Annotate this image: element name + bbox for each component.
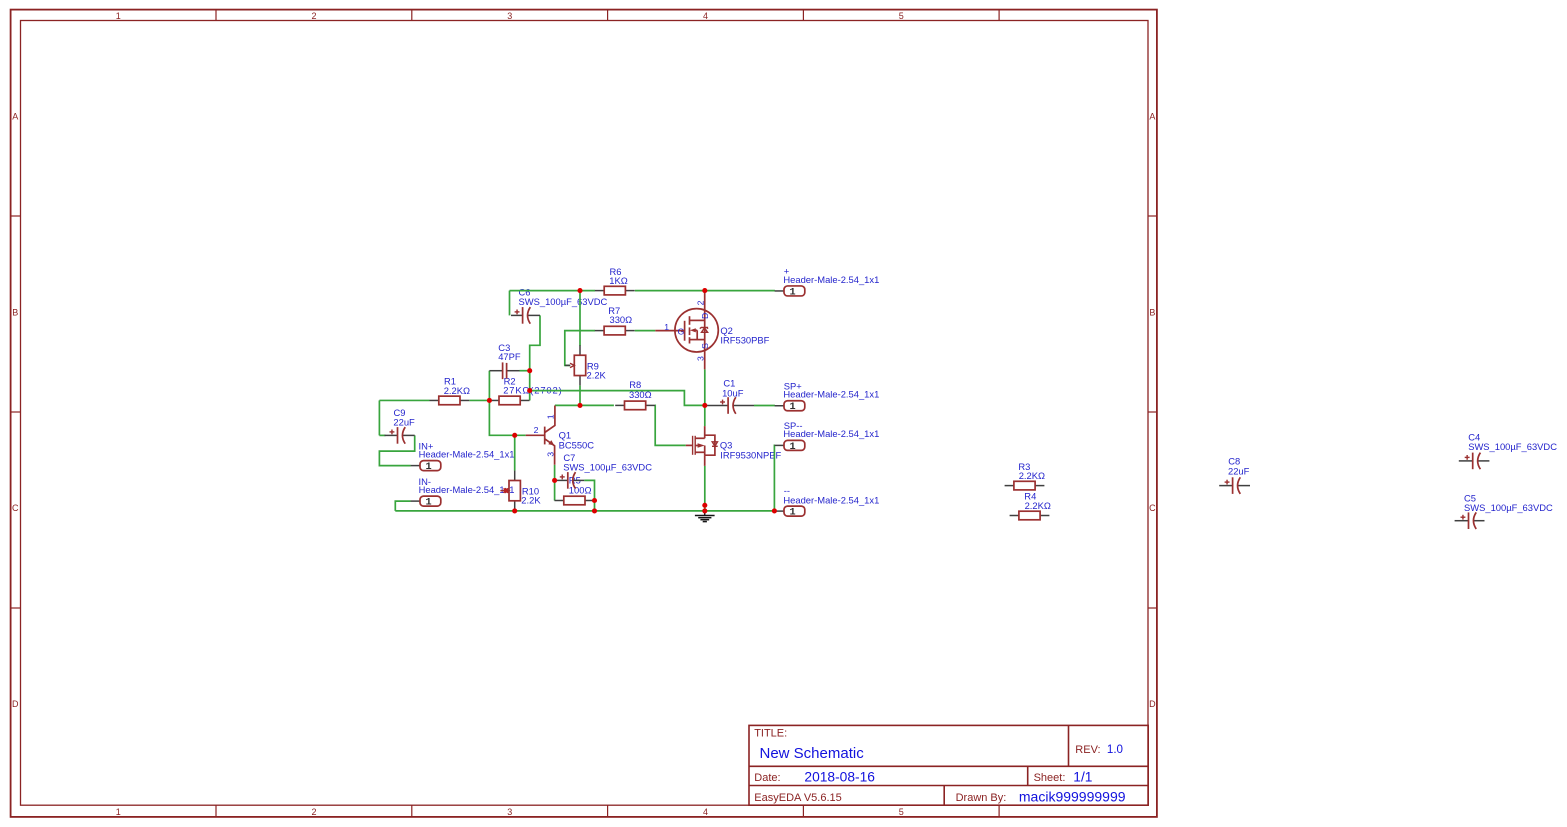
svg-text:IRF9530NPBF: IRF9530NPBF — [720, 450, 781, 461]
capacitor C8 — [1219, 477, 1250, 494]
label C8 — [1228, 456, 1250, 477]
junction top rail / R9 top — [577, 288, 582, 293]
header pin SP-- — [775, 440, 805, 452]
svg-text:C: C — [1149, 503, 1156, 513]
wire IN- to bottom rail — [395, 501, 410, 511]
resistor R5 — [555, 496, 595, 505]
frame row ticks right — [1148, 216, 1157, 608]
svg-text:22uF: 22uF — [393, 416, 415, 427]
svg-text:IRF530PBF: IRF530PBF — [720, 335, 769, 346]
svg-text:D: D — [700, 313, 710, 319]
svg-text:1/1: 1/1 — [1073, 769, 1092, 784]
wire top rail to R9 top — [579, 291, 581, 346]
junction C1 / Q2 source / Q3 — [702, 403, 707, 408]
wire junction down to R2 right — [529, 371, 531, 401]
svg-text:5: 5 — [899, 11, 904, 21]
title block border — [749, 725, 1148, 805]
trimmer resistor R10 — [500, 471, 520, 511]
wire R1 left down to C9 — [378, 400, 380, 435]
wire C1 right to SP+ header — [754, 405, 775, 407]
svg-text:3: 3 — [507, 807, 512, 817]
label R10 — [521, 486, 541, 506]
resistor R2 — [490, 396, 530, 405]
svg-text:A: A — [1149, 111, 1155, 121]
net label -- header — [783, 485, 879, 505]
svg-text:2: 2 — [696, 300, 706, 305]
frame row letters right — [1149, 111, 1156, 709]
label R5 — [569, 475, 592, 496]
svg-text:B: B — [12, 307, 18, 317]
svg-text:TITLE:: TITLE: — [754, 728, 787, 740]
wire R7 right to Q2 gate — [635, 330, 656, 332]
resistor R3 — [1005, 481, 1045, 490]
label C3 — [498, 342, 521, 362]
wire base node down to R10 top — [514, 435, 516, 470]
junction above ground — [702, 503, 707, 508]
resistor R8 — [615, 401, 655, 410]
junction R1/R2 — [487, 398, 492, 403]
wire C1 node down to Q3 top — [704, 405, 706, 426]
svg-text:1.0: 1.0 — [1107, 743, 1123, 756]
svg-text:10uF: 10uF — [722, 387, 744, 398]
resistor R4 — [1010, 511, 1050, 520]
svg-text:100Ω: 100Ω — [569, 485, 592, 496]
net label IN- header — [419, 476, 515, 495]
svg-text:Header-Male-2.54_1x1: Header-Male-2.54_1x1 — [783, 494, 879, 505]
frame column ticks top — [216, 10, 999, 21]
svg-text:C: C — [12, 503, 19, 513]
wire R1 left — [379, 399, 429, 401]
wire R9 bottom to collector row — [579, 386, 581, 406]
sheet frame inner border — [21, 21, 1149, 806]
wire Q3 bottom to ground rail — [704, 466, 706, 511]
label C4 — [1468, 431, 1557, 452]
transistor Q3 IRF9530NPBF — [686, 426, 718, 466]
frame column numbers top — [116, 11, 904, 21]
trimmer resistor R9 — [565, 345, 586, 385]
svg-text:2: 2 — [311, 11, 316, 21]
junction rail / SP-- — [772, 508, 777, 513]
header pin -- (bottom right) — [775, 506, 805, 518]
transistor Q1 BC550C — [526, 406, 555, 465]
wire bottom ground rail — [395, 510, 774, 512]
ground symbol — [695, 511, 715, 522]
svg-text:1: 1 — [545, 414, 555, 419]
capacitor C6 — [511, 307, 540, 324]
label C5 — [1464, 493, 1553, 514]
svg-text:Drawn By:: Drawn By: — [956, 792, 1007, 804]
svg-text:2018-08-16: 2018-08-16 — [804, 769, 875, 784]
net label + header — [783, 266, 879, 285]
svg-text:1: 1 — [664, 322, 669, 332]
wire C9 left stub — [379, 434, 385, 436]
capacitor C7 — [555, 472, 585, 489]
svg-text:3: 3 — [507, 11, 512, 21]
label C7 — [563, 452, 652, 473]
svg-text:Header-Male-2.54_1x1: Header-Male-2.54_1x1 — [783, 428, 879, 439]
svg-text:22uF: 22uF — [1228, 466, 1250, 477]
header pin + (top right) — [775, 286, 805, 298]
frame row letters left — [12, 111, 19, 709]
junction C3 right — [527, 368, 532, 373]
svg-text:BC550C: BC550C — [559, 439, 595, 450]
svg-text:REV:: REV: — [1075, 744, 1100, 756]
wire C3 left down to R1/R2 junction — [488, 371, 490, 401]
svg-text:1: 1 — [116, 807, 121, 817]
svg-text:SWS_100µF_63VDC: SWS_100µF_63VDC — [1464, 502, 1553, 513]
label Q2 — [720, 325, 769, 346]
label Q1 — [559, 430, 595, 451]
svg-text:2.2KΩ: 2.2KΩ — [444, 385, 470, 396]
label Q3 — [720, 440, 782, 461]
junction rail / R10 bottom — [512, 508, 517, 513]
junction Q1 emitter / C7 — [552, 478, 557, 483]
junction rail / C7 R5 — [592, 508, 597, 513]
wire R7 left to R9 wiper — [565, 331, 595, 366]
svg-text:Header-Male-2.54_1x1: Header-Male-2.54_1x1 — [419, 448, 515, 459]
svg-text:SWS_100µF_63VDC: SWS_100µF_63VDC — [519, 296, 608, 307]
svg-text:EasyEDA V5.6.15: EasyEDA V5.6.15 — [754, 792, 841, 804]
wire R1/R2 junction down to Q1 base — [489, 400, 525, 435]
capacitor C3 — [489, 362, 519, 379]
junction top rail / Q2 drain — [702, 288, 707, 293]
svg-text:1KΩ: 1KΩ — [609, 275, 627, 286]
wire C9 right zigzag to IN+ — [379, 435, 414, 465]
label R9 — [587, 360, 607, 380]
net label IN+ header — [419, 440, 515, 459]
svg-text:Header-Male-2.54_1x1: Header-Male-2.54_1x1 — [419, 484, 515, 495]
junction rail / ground — [702, 508, 707, 513]
junction Q1 base / R10 — [512, 433, 517, 438]
label R3 — [1018, 461, 1045, 481]
label R7 — [608, 305, 632, 325]
header pin SP+ — [775, 401, 805, 413]
junction C7/R5 right — [592, 498, 597, 503]
svg-text:B: B — [1149, 307, 1155, 317]
frame row ticks left — [11, 216, 21, 608]
net label SP-- header — [783, 420, 879, 439]
svg-text:4: 4 — [703, 807, 708, 817]
svg-text:macik999999999: macik999999999 — [1019, 788, 1126, 804]
label C1 — [722, 378, 744, 399]
label C9 — [393, 407, 415, 427]
junction R9 bottom / collector — [577, 403, 582, 408]
svg-text:Date:: Date: — [754, 772, 780, 784]
svg-text:1: 1 — [116, 11, 121, 21]
label R8 — [629, 379, 652, 400]
svg-text:A: A — [12, 111, 18, 121]
capacitor C9 — [385, 427, 415, 444]
header pin IN+ — [411, 461, 441, 473]
wire R8 right down to Q3 gate — [655, 405, 686, 445]
wire middle feedback run to C1 node — [530, 391, 705, 406]
svg-text:2: 2 — [311, 807, 316, 817]
label R1 — [444, 376, 470, 396]
wire C7 right down to R5 right and ground rail — [584, 480, 594, 511]
junction feedback tap — [527, 388, 532, 393]
svg-text:4: 4 — [703, 11, 708, 21]
label C6 — [519, 287, 608, 308]
svg-text:2.2KΩ: 2.2KΩ — [1025, 500, 1051, 511]
wire top rail left of R6 — [510, 290, 596, 292]
capacitor C4 — [1459, 453, 1490, 470]
resistor R6 — [595, 286, 635, 295]
wire Q2 source down to C1 node — [704, 369, 706, 405]
svg-text:2.2K: 2.2K — [521, 494, 541, 505]
svg-text:2.2KΩ: 2.2KΩ — [1019, 470, 1045, 481]
wire C3 right to junction — [520, 370, 530, 372]
svg-text:D: D — [12, 699, 19, 709]
svg-text:47PF: 47PF — [498, 351, 521, 362]
svg-text:Sheet:: Sheet: — [1034, 772, 1066, 784]
svg-text:Header-Male-2.54_1x1: Header-Male-2.54_1x1 — [783, 389, 879, 400]
svg-text:Header-Male-2.54_1x1: Header-Male-2.54_1x1 — [783, 274, 879, 285]
svg-text:D: D — [1149, 699, 1156, 709]
frame column ticks bottom — [216, 805, 999, 817]
svg-text:S: S — [700, 343, 710, 349]
svg-text:SWS_100µF_63VDC: SWS_100µF_63VDC — [1468, 441, 1557, 452]
wire Q1 collector row — [555, 404, 614, 406]
svg-text:New Schematic: New Schematic — [760, 745, 865, 762]
net label SP+ header — [783, 381, 879, 400]
frame column numbers bottom — [116, 807, 904, 817]
label R2 — [503, 375, 562, 395]
sheet frame outer border — [11, 10, 1157, 817]
svg-text:2.2K: 2.2K — [587, 369, 607, 380]
capacitor C1 — [707, 397, 754, 414]
wire C7 left down to R5 left — [554, 480, 556, 500]
wire SP-- header down to ground rail — [773, 445, 776, 511]
svg-text:G: G — [678, 326, 685, 336]
label R4 — [1024, 491, 1051, 512]
wire top rail down to C6 — [509, 291, 511, 316]
label R6 — [609, 266, 627, 286]
svg-text:3: 3 — [546, 452, 556, 457]
svg-text:2: 2 — [534, 425, 539, 435]
wire Q1 emitter down to C7 — [554, 465, 556, 481]
wire C6 right to C3 junction — [530, 315, 540, 370]
resistor R1 — [430, 396, 470, 405]
transistor Q2 IRF530PBF — [655, 292, 718, 370]
wire R1 right to junction — [469, 399, 489, 401]
wire top rail right of R6 — [635, 290, 775, 292]
header pin IN- — [411, 496, 441, 508]
svg-text:330Ω: 330Ω — [610, 314, 633, 325]
svg-text:3: 3 — [695, 356, 705, 361]
resistor R7 — [595, 326, 635, 335]
svg-text:5: 5 — [899, 807, 904, 817]
svg-text:SWS_100µF_63VDC: SWS_100µF_63VDC — [563, 461, 652, 472]
capacitor C5 — [1455, 512, 1485, 529]
